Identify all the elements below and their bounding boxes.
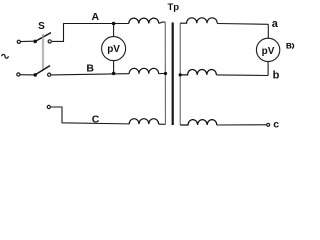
svg-text:pV: pV xyxy=(107,44,120,55)
voltmeter U1 pV circle xyxy=(102,37,126,61)
wire xyxy=(159,22,165,23)
wire xyxy=(217,124,267,126)
switch pole A contact dot xyxy=(33,40,37,44)
inductor secondary winding c xyxy=(180,120,217,125)
AC source tilde xyxy=(2,54,9,58)
node junction dot on B xyxy=(112,72,116,76)
svg-text:B: B xyxy=(86,62,94,74)
svg-text:c: c xyxy=(273,119,279,131)
inductor secondary winding b xyxy=(180,70,216,75)
switch pole C terminal xyxy=(47,105,50,108)
inductor primary winding B xyxy=(129,68,158,73)
voltmeter U1 pV stub top xyxy=(113,24,115,37)
inductor secondary winding a xyxy=(180,18,217,23)
svg-text:Tp: Tp xyxy=(167,2,179,13)
wire C feed xyxy=(51,107,130,124)
wire line B xyxy=(51,74,129,75)
switch pole B contact dot xyxy=(33,73,37,77)
svg-text:в: в xyxy=(286,41,292,52)
wire xyxy=(159,123,166,125)
inductor primary winding C xyxy=(129,119,158,124)
transformer T core xyxy=(172,23,174,126)
voltmeter U2 pV circle xyxy=(256,38,279,61)
switch pole A blade xyxy=(35,33,51,42)
switch pole B blade xyxy=(35,66,50,75)
wire xyxy=(20,74,34,76)
wire line A xyxy=(63,23,129,25)
terminal c circle xyxy=(267,123,270,126)
svg-text:pV: pV xyxy=(262,46,275,57)
node junction dot secondary bus xyxy=(179,73,182,76)
wire secondary neutral bus xyxy=(179,23,181,125)
wire xyxy=(52,24,64,42)
voltmeter U1 pV stub bottom xyxy=(113,61,115,74)
switch pole A right contact xyxy=(48,40,51,43)
wire xyxy=(217,23,268,26)
wire a drop to voltmeter xyxy=(267,24,269,38)
node junction dot primary bus xyxy=(164,72,167,75)
wire primary neutral bus xyxy=(164,22,166,124)
wire voltmeter to b xyxy=(267,62,269,76)
svg-text:A: A xyxy=(92,11,100,23)
svg-text:S: S xyxy=(38,21,45,32)
svg-text:a: a xyxy=(272,18,279,30)
switch pole B right contact xyxy=(48,73,51,76)
wire xyxy=(216,74,268,77)
switch pole A terminal xyxy=(17,40,20,43)
switch linkage xyxy=(41,34,43,70)
wire xyxy=(21,40,34,42)
svg-text:b: b xyxy=(273,70,280,82)
wire xyxy=(159,73,166,75)
node junction dot on A xyxy=(112,22,116,26)
inductor primary winding A xyxy=(129,18,159,23)
switch pole B terminal xyxy=(17,73,20,76)
